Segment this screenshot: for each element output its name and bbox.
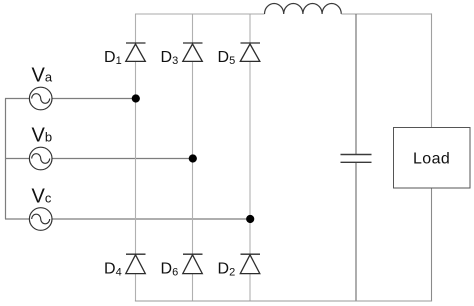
inductor L	[265, 3, 342, 14]
wire phase a horizontal	[5, 98, 136, 100]
node c junction dot	[246, 215, 254, 223]
svg-text:Load: Load	[413, 151, 450, 168]
wire top rail left of inductor	[135, 13, 265, 15]
svg-text:D1: D1	[104, 49, 122, 67]
diode D6	[183, 254, 203, 273]
wire neutral bus (left vertical)	[5, 99, 7, 220]
wire capacitor branch upper	[355, 14, 357, 155]
svg-text:D4: D4	[104, 261, 122, 279]
svg-text:D5: D5	[218, 49, 236, 67]
node a junction dot	[132, 94, 140, 102]
diode D2	[240, 254, 260, 273]
svg-text:D2: D2	[218, 261, 236, 279]
wire phase b horizontal	[5, 158, 193, 160]
diode D4	[126, 254, 146, 273]
source Va	[29, 87, 52, 110]
wire load branch lower	[431, 188, 433, 301]
source Vc	[29, 208, 52, 231]
wire load branch upper	[431, 13, 433, 127]
load box	[394, 128, 471, 189]
diode D1	[126, 43, 146, 61]
wire bridge leg 3 (D5/D2 column)	[249, 14, 251, 301]
diode D3	[183, 43, 203, 61]
svg-text:Vc: Vc	[32, 185, 52, 207]
wire bridge leg 2 (D3/D6 column)	[192, 14, 194, 301]
diode D5	[240, 43, 260, 61]
svg-text:D6: D6	[161, 261, 179, 279]
wire phase c horizontal	[5, 218, 250, 220]
svg-text:D3: D3	[161, 49, 179, 67]
source Vb	[29, 147, 52, 170]
svg-text:Va: Va	[32, 65, 53, 87]
capacitor C top plate	[341, 154, 372, 156]
wire bottom rail	[135, 300, 432, 302]
wire top rail right of inductor	[341, 13, 431, 15]
capacitor C bottom plate	[341, 161, 372, 163]
node b junction dot	[189, 154, 197, 162]
wire capacitor branch lower	[355, 162, 357, 301]
svg-text:Vb: Vb	[32, 125, 53, 147]
wire bridge leg 1 (D1/D4 column)	[135, 14, 137, 301]
